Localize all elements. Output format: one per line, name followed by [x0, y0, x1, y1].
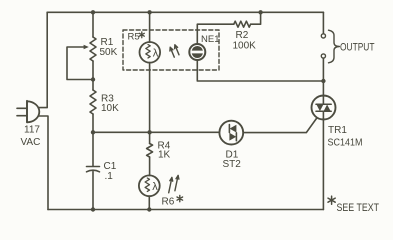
label R4 1K: [158, 141, 171, 161]
svg-text:.1: .1: [105, 171, 114, 182]
svg-text:TR1: TR1: [328, 125, 347, 136]
label D1 ST2: [223, 150, 242, 171]
capacitor C1 .1: [87, 167, 100, 172]
dashed enclosure around R5 and NE1: [123, 30, 219, 70]
junction top rail / R5 branch: [147, 10, 151, 14]
junction gate node left: [91, 130, 95, 134]
wire R6 to bottom rail: [148, 196, 150, 209]
wire C1 to bottom rail: [92, 172, 94, 210]
wire D1 to TR1 gate: [243, 118, 317, 133]
svg-text:OUTPUT: OUTPUT: [340, 42, 375, 54]
junction C1 bottom rail: [91, 207, 95, 211]
light arrows into R6: [169, 176, 179, 193]
wire plug top stub to top-left corner riser: [38, 12, 47, 107]
plug P1 117 VAC line plug: [17, 101, 39, 123]
svg-text:100K: 100K: [233, 41, 257, 52]
label R1 50K: [100, 37, 118, 58]
svg-text:VAC: VAC: [21, 137, 41, 148]
svg-text:R5: R5: [128, 32, 140, 43]
wire top rail to output terminal: [322, 12, 324, 33]
svg-text:117: 117: [24, 125, 40, 136]
svg-text:λ: λ: [152, 181, 158, 193]
svg-text:ST2: ST2: [223, 159, 242, 170]
wire R1 to R3: [92, 61, 94, 90]
label R6*: [177, 195, 183, 201]
svg-text:R6: R6: [162, 197, 175, 208]
output terminal J2: [321, 54, 325, 58]
wire top rail down to R5: [149, 12, 151, 42]
wire gate node to D1: [93, 131, 219, 133]
triac TR1: [312, 96, 336, 120]
light arrows into R5: [170, 45, 179, 57]
svg-text:10K: 10K: [101, 103, 119, 114]
svg-text:SC141M: SC141M: [328, 138, 363, 149]
wire R4 to R6: [149, 157, 151, 176]
wire R3 to C1: [92, 114, 94, 166]
svg-text:SEE TEXT: SEE TEXT: [337, 202, 380, 214]
photocell R6: [139, 175, 160, 196]
wire R2 to top rail: [251, 12, 261, 24]
wire NE1 bottom to output node: [197, 60, 323, 81]
output terminal J1: [321, 34, 325, 38]
resistor R4 1K: [147, 144, 153, 157]
wire TR1 through vertical: [322, 96, 324, 104]
wire bottom rail to plug bottom stub: [38, 116, 48, 210]
label 117 VAC: [21, 125, 41, 149]
label R2 100K: [233, 30, 257, 52]
junction top rail / R1 branch: [91, 10, 95, 14]
label R5*: [139, 32, 144, 38]
brace for output: [329, 30, 340, 63]
wire output terminal to TR1: [322, 58, 324, 95]
wire top rail down to R1: [92, 12, 94, 37]
wire gate node to R4: [149, 132, 151, 143]
resistor R1 50K: [90, 37, 96, 61]
svg-text:R2: R2: [236, 30, 249, 41]
junction top rail / R2: [258, 10, 262, 14]
note * SEE TEXT: [328, 196, 335, 204]
junction R6 bottom rail: [147, 207, 151, 211]
svg-text:50K: 50K: [100, 47, 118, 58]
junction NE1 return / output branch: [321, 79, 325, 83]
wiper of R1: [67, 45, 91, 80]
wire bottom rail: [48, 209, 323, 211]
wire NE1 top to R2: [197, 24, 234, 44]
junction R1 bottom / wiper: [91, 77, 95, 81]
label C1 .1: [104, 161, 117, 182]
wire top rail: [47, 11, 323, 13]
photocell R5: [140, 42, 161, 63]
svg-text:λ: λ: [153, 48, 159, 60]
label R3 10K: [101, 94, 119, 115]
resistor R3 10K: [90, 90, 96, 114]
label TR1 SC141M: [328, 125, 363, 149]
diac D1: [219, 121, 243, 145]
resistor R2 100K: [234, 21, 251, 27]
wire R5 to gate node: [149, 63, 151, 133]
neon lamp NE1: [189, 44, 205, 60]
junction gate node mid: [147, 130, 151, 134]
svg-text:NE1: NE1: [201, 34, 219, 45]
svg-text:1K: 1K: [158, 150, 171, 161]
